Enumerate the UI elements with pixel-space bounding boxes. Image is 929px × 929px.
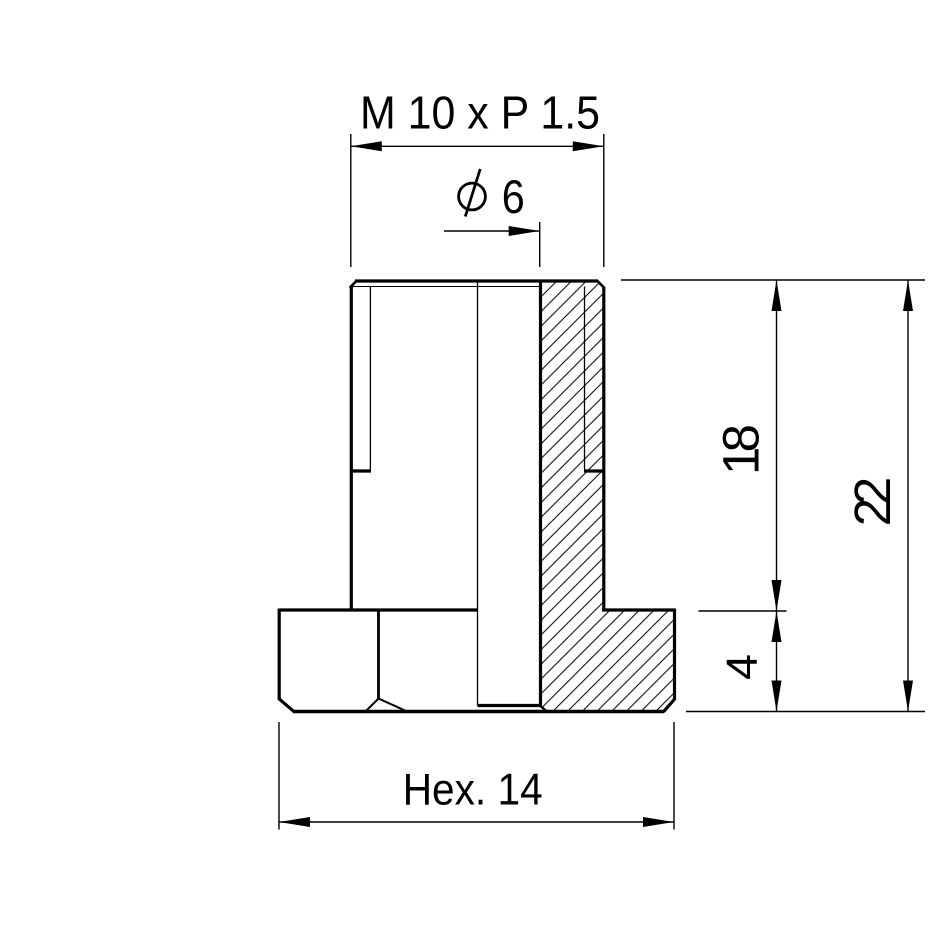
dimension phi6: dimension line xyxy=(444,230,540,232)
dimension 18: top arrow xyxy=(772,280,782,311)
chamfer edge thin line xyxy=(353,286,541,288)
dimension Hex14: right extension line xyxy=(673,722,675,830)
thread minor diameter line right xyxy=(584,287,586,470)
thread minor diameter line left xyxy=(369,287,371,470)
dimension phi6: arrow xyxy=(509,226,540,236)
body top-right chamfer xyxy=(597,281,605,289)
flange bottom-right chamfer xyxy=(664,698,676,712)
hex face line xyxy=(377,612,380,700)
body top-left chamfer xyxy=(350,281,357,288)
svg-text:Hex. 14: Hex. 14 xyxy=(403,766,543,815)
dimension M10: right extension line xyxy=(603,134,605,267)
dimension 22: bottom arrow xyxy=(903,681,913,712)
hole bottom edge xyxy=(478,704,541,707)
svg-text:22: 22 xyxy=(844,477,901,527)
dimension 4: top arrow xyxy=(772,611,782,642)
flange top edge right xyxy=(602,608,675,611)
right side: top extension line xyxy=(621,279,925,281)
centerline axis xyxy=(477,281,479,706)
section hatch area (right half section) xyxy=(541,281,675,712)
dimension Hex14: dimension line xyxy=(279,821,674,823)
flange bottom-left chamfer xyxy=(279,698,295,712)
hex corner chamfer left xyxy=(366,699,379,712)
dimension M10: dimension line xyxy=(351,145,604,147)
svg-text:4: 4 xyxy=(718,654,767,680)
right side: bottom extension line xyxy=(686,711,925,713)
body left edge xyxy=(350,287,353,611)
dimension Hex14: left arrow xyxy=(279,817,310,827)
body top edge xyxy=(355,279,598,282)
svg-text:18: 18 xyxy=(713,424,770,475)
dimension phi6: extension line xyxy=(539,222,541,267)
flange right edge xyxy=(673,609,676,700)
dimension 18: bottom arrow xyxy=(772,580,782,611)
hole exit chamfer xyxy=(540,706,547,712)
dimension M10: right arrow xyxy=(573,141,604,151)
thread end step left xyxy=(350,469,371,472)
svg-text:6: 6 xyxy=(502,170,525,223)
body right edge xyxy=(602,287,605,610)
dimension M10: left arrow xyxy=(351,141,382,151)
dimension 18: dimension line xyxy=(776,280,778,611)
thread end step right xyxy=(584,469,604,472)
dimension Hex14: left extension line xyxy=(278,722,280,830)
dimension M10: left extension line xyxy=(350,134,352,267)
flange top edge left xyxy=(279,608,477,611)
flange left edge xyxy=(278,609,281,700)
hole wall (section) xyxy=(539,282,542,706)
hex corner chamfer right xyxy=(379,699,407,712)
dimension 4: dimension line xyxy=(776,611,778,712)
dimension 22: dimension line xyxy=(907,280,909,712)
svg-text:M 10 x P 1.5: M 10 x P 1.5 xyxy=(360,87,600,139)
dimension 4: bottom arrow xyxy=(772,681,782,712)
dimension 22: top arrow xyxy=(903,280,913,311)
flange bottom edge xyxy=(293,710,664,713)
dimension phi6: diameter symbol xyxy=(459,183,486,210)
dimension Hex14: right arrow xyxy=(643,817,674,827)
right side: middle extension line xyxy=(699,610,787,612)
